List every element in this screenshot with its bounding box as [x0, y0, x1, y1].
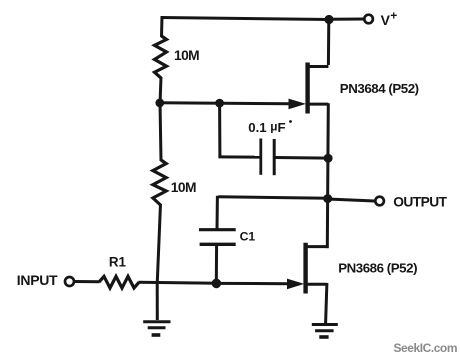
- svg-text:0.1 μF: 0.1 μF: [248, 120, 285, 135]
- svg-text:PN3686 (P52): PN3686 (P52): [338, 261, 417, 276]
- svg-text:R1: R1: [109, 255, 127, 270]
- svg-text:OUTPUT: OUTPUT: [393, 194, 447, 209]
- svg-text:10M: 10M: [174, 48, 199, 63]
- svg-text:SeekIC.com: SeekIC.com: [394, 341, 458, 355]
- svg-text:10M: 10M: [171, 180, 196, 195]
- svg-text:C1: C1: [240, 229, 256, 243]
- svg-text:+: +: [390, 9, 397, 23]
- svg-text:INPUT: INPUT: [17, 272, 58, 288]
- svg-text:V: V: [381, 12, 391, 28]
- svg-text:PN3684 (P52): PN3684 (P52): [340, 81, 419, 96]
